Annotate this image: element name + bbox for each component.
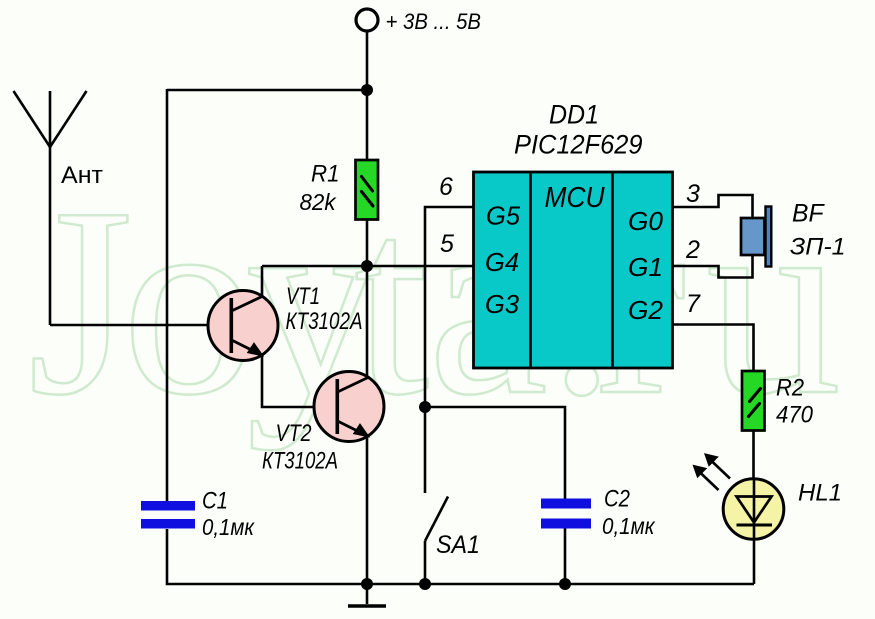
- svg-text:82k: 82k: [300, 189, 337, 215]
- svg-text:VT1: VT1: [286, 283, 320, 310]
- svg-text:VT2: VT2: [276, 420, 312, 447]
- svg-text:КТ3102А: КТ3102А: [286, 308, 363, 335]
- svg-text:G4: G4: [485, 247, 519, 277]
- capacitor C2: [541, 499, 591, 529]
- node: junction SA1/C2 branch: [419, 401, 431, 413]
- node: bottom junction at C2: [559, 578, 571, 590]
- wire: SA1 lower stub: [424, 541, 427, 584]
- svg-text:C1: C1: [202, 488, 228, 515]
- svg-text:G0: G0: [628, 206, 664, 236]
- svg-text:MCU: MCU: [545, 182, 606, 214]
- node: junction top: [361, 84, 373, 96]
- node: bottom junction at VT2 emitter: [361, 578, 373, 590]
- wire: pin 7 to R2: [672, 325, 754, 372]
- switch SA1 blade: [425, 497, 448, 542]
- svg-text:BF: BF: [792, 200, 825, 228]
- svg-text:R2: R2: [776, 375, 804, 402]
- wire: antenna to VT1 base: [50, 324, 231, 327]
- IC DD1 PIC12F629: [474, 172, 673, 368]
- wire: pin 2 to buzzer bottom: [672, 255, 753, 278]
- svg-text:C2: C2: [604, 486, 630, 513]
- antenna WA1: [14, 91, 87, 325]
- wire: VT1 collector riser: [261, 266, 264, 297]
- svg-text:G1: G1: [628, 252, 663, 282]
- svg-text:7: 7: [686, 290, 701, 318]
- power terminal +3V..5V: [356, 9, 378, 31]
- svg-text:6: 6: [439, 173, 453, 201]
- LED HL1: [723, 479, 784, 584]
- svg-text:2: 2: [685, 236, 700, 264]
- resistor R1: [356, 160, 379, 220]
- wire: left vertical lower (C1 to bottom bus): [167, 529, 754, 584]
- svg-text:SA1: SA1: [436, 531, 480, 559]
- svg-text:G5: G5: [486, 201, 521, 231]
- svg-text:0,1мк: 0,1мк: [602, 513, 656, 539]
- transistor VT1: [208, 291, 278, 361]
- node: bottom junction at SA1: [419, 578, 431, 590]
- LED arrow 2: [705, 454, 730, 479]
- wire: pin 6 from chip, down to SA1: [425, 207, 473, 493]
- svg-text:HL1: HL1: [798, 480, 842, 507]
- svg-text:G2: G2: [628, 295, 664, 325]
- svg-text:DD1: DD1: [549, 100, 599, 130]
- wire: VT2 collector riser: [366, 266, 369, 378]
- ground: [348, 584, 386, 606]
- svg-text:3: 3: [686, 180, 700, 208]
- svg-text:G3: G3: [485, 289, 520, 319]
- wire: power vertical from terminal to R1: [366, 31, 369, 160]
- node: junction under R1: [361, 260, 373, 272]
- svg-text:5: 5: [440, 230, 454, 258]
- wire: R1 to junction: [366, 219, 369, 266]
- svg-text:0,1мк: 0,1мк: [202, 514, 255, 540]
- svg-text:470: 470: [776, 402, 814, 429]
- wire: C2 to bottom bus: [564, 529, 567, 585]
- wire: R2 to HL1: [752, 430, 755, 480]
- wire: top horizontal: [167, 89, 367, 92]
- wire: pin 3 to buzzer top: [672, 195, 753, 218]
- svg-text:КТ3102А: КТ3102А: [262, 448, 338, 475]
- svg-text:R1: R1: [311, 161, 340, 188]
- wire: collector bus horizontal to chip pin 5: [262, 265, 473, 268]
- wire: VT2 emitter down to bottom bus: [366, 436, 369, 584]
- buzzer BF ZP-1: [741, 207, 771, 267]
- svg-text:Ант: Ант: [61, 162, 103, 189]
- wire: branch to C2: [425, 407, 565, 499]
- LED arrow 1: [694, 466, 719, 491]
- capacitor C1: [141, 501, 195, 529]
- resistor R2: [742, 371, 765, 431]
- svg-text:+ 3В ... 5В: + 3В ... 5В: [386, 9, 482, 34]
- svg-text:ЗП-1: ЗП-1: [790, 234, 846, 261]
- transistor VT2: [314, 372, 384, 442]
- wire: left vertical upper (to C1): [166, 89, 169, 501]
- wire: VT1 emitter to VT2 base: [262, 355, 338, 407]
- svg-text:PIC12F629: PIC12F629: [514, 130, 643, 160]
